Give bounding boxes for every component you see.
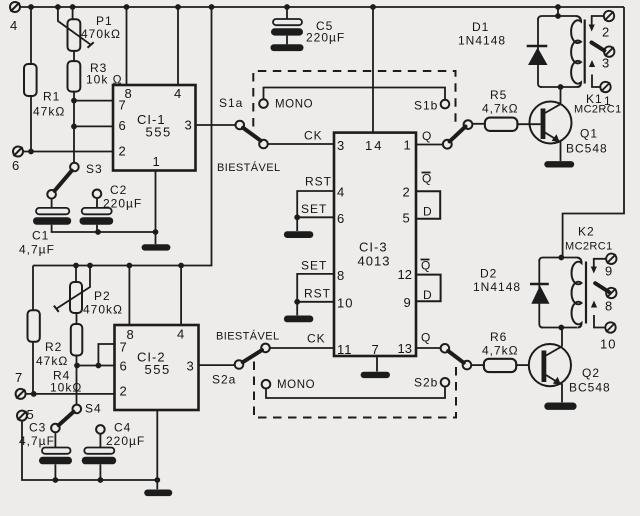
svg-text:MC2RC1: MC2RC1	[574, 104, 622, 116]
P1 wiper tick	[88, 42, 94, 48]
D feedback box pins 2-5	[417, 191, 440, 218]
switch S2a blade	[243, 350, 262, 362]
wire Q2 collector	[561, 328, 563, 347]
wire Q2 emitter	[561, 384, 563, 403]
svg-text:4,7kΩ: 4,7kΩ	[482, 102, 519, 116]
ground CI-2 pin 1	[144, 490, 172, 497]
wire P1 top stub	[72, 7, 74, 19]
svg-text:8: 8	[605, 299, 612, 314]
switch S1b circles	[443, 120, 473, 148]
svg-text:R5: R5	[490, 88, 507, 102]
svg-text:C3: C3	[29, 421, 46, 435]
svg-text:BIESTÁVEL: BIESTÁVEL	[216, 330, 280, 343]
wire K2 left branch (D2)	[539, 259, 543, 328]
S2b mono circle	[441, 378, 450, 387]
svg-text:1: 1	[153, 154, 160, 169]
svg-text:Q: Q	[422, 129, 432, 143]
svg-text:CK: CK	[304, 129, 323, 143]
ground CI-3 set/rst upper	[284, 231, 313, 238]
svg-text:R2: R2	[45, 340, 62, 354]
svg-text:P1: P1	[96, 14, 113, 28]
svg-text:D1: D1	[472, 20, 489, 34]
svg-text:RST: RST	[304, 287, 331, 301]
svg-text:4013: 4013	[358, 254, 391, 269]
wire MONO link lower	[266, 387, 445, 398]
svg-text:1: 1	[404, 138, 411, 153]
relay K1 contact terminal 2	[604, 11, 614, 21]
svg-text:555: 555	[146, 125, 172, 140]
svg-text:SET: SET	[301, 202, 327, 216]
wire CI-2 pin 8 drop	[128, 266, 130, 326]
svg-text:Q: Q	[421, 259, 431, 273]
wire CI-1 pin 1 drop	[155, 171, 157, 245]
wire C4 bottom stub	[99, 464, 101, 480]
wire K2 bottom bar	[541, 327, 577, 329]
svg-text:555: 555	[145, 362, 171, 377]
svg-text:MONO: MONO	[277, 379, 315, 391]
junction dots K2	[558, 255, 564, 331]
terminal 5	[17, 411, 27, 421]
svg-text:4,7µF: 4,7µF	[19, 243, 55, 257]
wire S4 to C3	[54, 432, 56, 447]
svg-text:9: 9	[404, 295, 411, 310]
svg-text:C4: C4	[114, 421, 131, 435]
ground Q1 emitter	[544, 161, 574, 167]
MONO upper circle	[259, 99, 268, 108]
IC CI-1 555 box	[113, 85, 196, 171]
svg-text:S2b: S2b	[414, 376, 438, 390]
svg-text:470kΩ: 470kΩ	[81, 27, 121, 41]
resistor R5 4.7k	[485, 118, 518, 131]
svg-text:CK: CK	[307, 332, 326, 346]
svg-text:Q: Q	[421, 331, 431, 345]
wire V+ top rail	[20, 6, 625, 8]
relay K2 core	[585, 262, 587, 324]
switch S1b blade	[450, 127, 466, 142]
svg-text:8: 8	[127, 327, 134, 342]
wire P2 to R4	[76, 313, 78, 324]
svg-text:S3: S3	[86, 162, 103, 176]
wire K1 feed stub	[557, 7, 559, 16]
switch S1a blade	[243, 128, 261, 141]
IC CI-3 4013 box	[334, 133, 416, 356]
svg-text:10: 10	[600, 337, 616, 352]
wire K1 bottom bar	[540, 86, 577, 88]
junction dots K1	[555, 13, 563, 90]
overbar for Qbar pin2	[422, 172, 431, 174]
K1 actuation arrow up	[592, 75, 600, 88]
ground C5	[271, 44, 304, 51]
svg-text:2: 2	[602, 25, 609, 40]
svg-text:6: 6	[337, 211, 344, 226]
wire CI-3 pin 14 drop	[372, 7, 374, 133]
svg-text:4: 4	[337, 185, 344, 200]
wire P2 top stub	[75, 266, 77, 283]
wire right edge down to K2	[563, 7, 624, 257]
svg-text:47kΩ: 47kΩ	[36, 354, 68, 368]
svg-text:S1b: S1b	[414, 99, 438, 113]
svg-text:C2: C2	[110, 183, 127, 197]
svg-text:S4: S4	[85, 402, 102, 416]
wire R4 bottom to S4	[76, 356, 78, 405]
svg-text:Q1: Q1	[580, 127, 598, 141]
wire C2 circle stub	[96, 198, 98, 208]
wire S1a to CK pin 3	[268, 143, 334, 145]
K2 actuation arrow down	[594, 259, 606, 267]
ground CI-3 pin 7	[361, 372, 390, 378]
wire S3 to C1	[51, 199, 53, 208]
svg-text:4: 4	[174, 86, 181, 101]
switch S2a circles	[235, 344, 270, 369]
capacitor C1 4.7uF plates	[36, 208, 69, 214]
wire R1 column top	[30, 7, 32, 64]
wire K2 top bar	[539, 258, 577, 262]
svg-text:3: 3	[187, 359, 194, 374]
wire S2a to CK pin 11	[270, 347, 334, 349]
svg-text:10kΩ: 10kΩ	[50, 381, 82, 395]
svg-text:10k Ω: 10k Ω	[86, 73, 123, 87]
wire terminal 5 drop and bottom bus	[22, 421, 157, 480]
switch S2b blade	[448, 351, 464, 363]
svg-text:D: D	[423, 205, 433, 219]
terminal 6	[13, 147, 23, 157]
terminal 4	[10, 2, 20, 12]
switch S1a circles	[236, 121, 268, 149]
svg-text:220µF: 220µF	[106, 434, 145, 448]
wire C2 bottom stub	[96, 225, 98, 232]
wire CI-1 pin 3 to S1a	[196, 124, 236, 126]
svg-text:12: 12	[398, 267, 412, 282]
svg-text:9: 9	[605, 264, 612, 279]
svg-text:MONO: MONO	[275, 99, 313, 111]
relay K2 contact terminal 9	[606, 254, 616, 264]
resistor R4 10k	[71, 324, 83, 356]
terminal 7	[16, 389, 26, 399]
dashed box upper MONO	[253, 71, 455, 127]
svg-text:D2: D2	[480, 267, 497, 281]
svg-text:S2a: S2a	[212, 373, 236, 387]
wire C3 bottom stub	[54, 464, 56, 480]
potentiometer P2 wiper arm	[56, 266, 90, 309]
K2 actuation arrow up	[594, 315, 605, 328]
svg-text:220µF: 220µF	[306, 31, 345, 45]
K2 blade	[595, 283, 609, 292]
relay K1 contact terminal 1	[600, 82, 610, 92]
wire terminal 6 to CI-1 pin 2	[23, 151, 113, 153]
ground Q2 emitter	[544, 403, 576, 410]
svg-text:7: 7	[119, 98, 126, 113]
ground CI-3 set/rst lower	[284, 316, 313, 323]
svg-text:C1: C1	[32, 229, 49, 243]
svg-text:1N4148: 1N4148	[473, 280, 521, 294]
overbar for Qbar pin12	[421, 259, 430, 261]
svg-text:7: 7	[372, 342, 379, 357]
svg-text:K2: K2	[578, 225, 595, 239]
switch S3 circles	[47, 163, 78, 199]
wire C5 to ground	[286, 36, 288, 45]
resistor R1 47k	[24, 64, 37, 96]
relay K2 contact terminal 8	[606, 288, 616, 298]
svg-text:CI-3: CI-3	[359, 240, 388, 255]
relay K1 core	[584, 20, 586, 84]
svg-text:5: 5	[403, 211, 410, 226]
switch S2b circles	[441, 344, 472, 369]
relay K2 coil	[572, 258, 582, 328]
svg-text:10: 10	[337, 296, 353, 311]
capacitor C3 4.7uF plates	[42, 448, 71, 454]
wire CI-3 pins 8-10 tie SET RST	[297, 274, 334, 302]
wire C5 drop	[286, 7, 288, 19]
wire P1 to R3	[73, 51, 75, 61]
svg-text:4,7kΩ: 4,7kΩ	[482, 344, 519, 358]
wire CI-3 pin 1 to S1b pole	[416, 144, 442, 146]
wire CI-1 pin 6	[74, 125, 113, 127]
svg-text:4: 4	[177, 327, 184, 342]
svg-text:8: 8	[337, 268, 344, 283]
svg-text:220µF: 220µF	[103, 197, 142, 211]
wire CI-2 pin 1 drop	[156, 410, 158, 489]
svg-text:11: 11	[337, 342, 353, 357]
svg-text:7: 7	[120, 340, 127, 355]
svg-text:3: 3	[337, 138, 344, 153]
svg-text:14: 14	[365, 138, 383, 153]
svg-text:R1: R1	[43, 90, 60, 104]
wire R3 bottom to S3	[73, 92, 75, 163]
resistor R2 47k	[28, 310, 40, 342]
dashed box lower MONO	[254, 362, 456, 418]
wire K1 left branch (D1)	[538, 18, 542, 87]
svg-text:4,7µF: 4,7µF	[19, 434, 55, 448]
relay K1 coil	[571, 16, 581, 87]
svg-text:R6: R6	[490, 330, 507, 344]
svg-text:Q: Q	[422, 172, 432, 186]
wire Q1 emitter	[560, 141, 562, 161]
wire MONO link upper	[264, 88, 446, 100]
svg-text:SET: SET	[301, 259, 327, 273]
P2 wiper tick	[54, 306, 59, 312]
svg-text:47kΩ: 47kΩ	[33, 105, 65, 119]
svg-text:2: 2	[403, 185, 410, 200]
wire K1 top bar	[538, 16, 576, 20]
svg-text:6: 6	[12, 158, 19, 173]
wire CI-2 pin 4 drop	[180, 266, 182, 326]
svg-text:Q2: Q2	[582, 366, 600, 380]
svg-text:1N4148: 1N4148	[458, 34, 506, 48]
svg-text:7: 7	[15, 370, 22, 385]
switch S4 circles	[51, 405, 81, 433]
capacitor C4 220uF circle and plates	[96, 425, 105, 434]
junction dots CI-3 ties	[294, 214, 300, 304]
svg-text:4: 4	[10, 18, 17, 33]
svg-text:2: 2	[120, 384, 127, 399]
junction dots bottom	[31, 263, 184, 483]
wire R1 bottom to terminal 6 row	[30, 96, 32, 152]
potentiometer P2 body 470k	[70, 282, 82, 313]
potentiometer P1 wiper arm	[58, 7, 91, 45]
wire C1 C2 bottom bus to pin1	[52, 225, 156, 232]
wire V+ middle drop to lower rail	[33, 7, 212, 266]
diode D2 1N4148	[530, 283, 549, 286]
resistor R3 10k	[68, 61, 81, 92]
wire CI-3 pin 7 stub	[376, 356, 378, 372]
svg-text:3: 3	[602, 56, 609, 71]
wire S2b to R6	[471, 364, 484, 366]
MONO lower circle	[262, 380, 271, 389]
svg-text:RST: RST	[305, 175, 332, 189]
diode D1 1N4148	[527, 45, 548, 48]
svg-text:470kΩ: 470kΩ	[83, 303, 123, 317]
wire Q1 collector	[560, 87, 562, 104]
wire R2 bottom to terminal 7 row	[32, 342, 34, 394]
S1b mono circle	[441, 100, 450, 109]
svg-text:BC548: BC548	[566, 142, 608, 156]
wire R6 to Q2 base	[516, 364, 529, 366]
relay K2 contact terminal 10	[605, 322, 615, 332]
svg-text:P2: P2	[94, 289, 111, 303]
transistor Q2 BC548	[529, 344, 571, 386]
wire R5 to Q1 base	[517, 123, 540, 125]
svg-text:BIESTÁVEL: BIESTÁVEL	[217, 161, 281, 174]
svg-text:2: 2	[119, 144, 126, 159]
wire C4 circle stub	[99, 434, 101, 448]
wire CI-2 pin 6	[77, 365, 115, 367]
wire CI-3 pins 4-6 tie RST SET	[297, 191, 334, 217]
svg-text:6: 6	[120, 359, 127, 374]
wire S1b to R5	[473, 123, 485, 125]
svg-text:6: 6	[119, 118, 126, 133]
switch S4 blade	[59, 412, 74, 425]
svg-text:MC2RC1: MC2RC1	[565, 241, 613, 253]
wire CI-1 pin 4 drop	[177, 7, 179, 85]
junction dots top	[28, 4, 561, 235]
wire CI-2 pin 3 to S2a	[199, 364, 235, 366]
svg-text:13: 13	[398, 341, 412, 356]
K1 blade	[592, 43, 605, 51]
wire CI-1 pin 7	[74, 100, 113, 102]
resistor R6 4.7k	[484, 359, 516, 372]
wire CI-2 pin 7 jog	[98, 344, 114, 366]
svg-text:3: 3	[185, 118, 192, 133]
capacitor C2 220uF circle and plates	[93, 190, 102, 199]
wire terminal 7 to CI-2 pin 2	[26, 393, 115, 395]
wire CI-1 pin 8 drop	[126, 7, 128, 85]
ground CI-1 pin 1	[142, 244, 171, 250]
svg-text:BC548: BC548	[569, 381, 611, 395]
K1 actuation arrow down	[592, 16, 604, 25]
wire to ground 1	[296, 217, 298, 231]
capacitor C5 220uF plates	[273, 19, 302, 25]
transistor Q1 BC548	[530, 102, 572, 144]
wire CI-3 pin 13 to S2b pole	[416, 347, 441, 349]
IC CI-2 555 box	[115, 325, 199, 410]
switch S3 blade	[55, 171, 72, 191]
potentiometer P1 body 470k	[68, 19, 81, 51]
svg-text:D: D	[423, 288, 433, 302]
wire R2 column top	[32, 266, 34, 311]
relay K1 contact terminal 3	[604, 46, 614, 56]
wire to ground 2	[296, 302, 298, 316]
svg-text:S1a: S1a	[219, 96, 243, 110]
D feedback box pins 12-9	[417, 275, 441, 302]
